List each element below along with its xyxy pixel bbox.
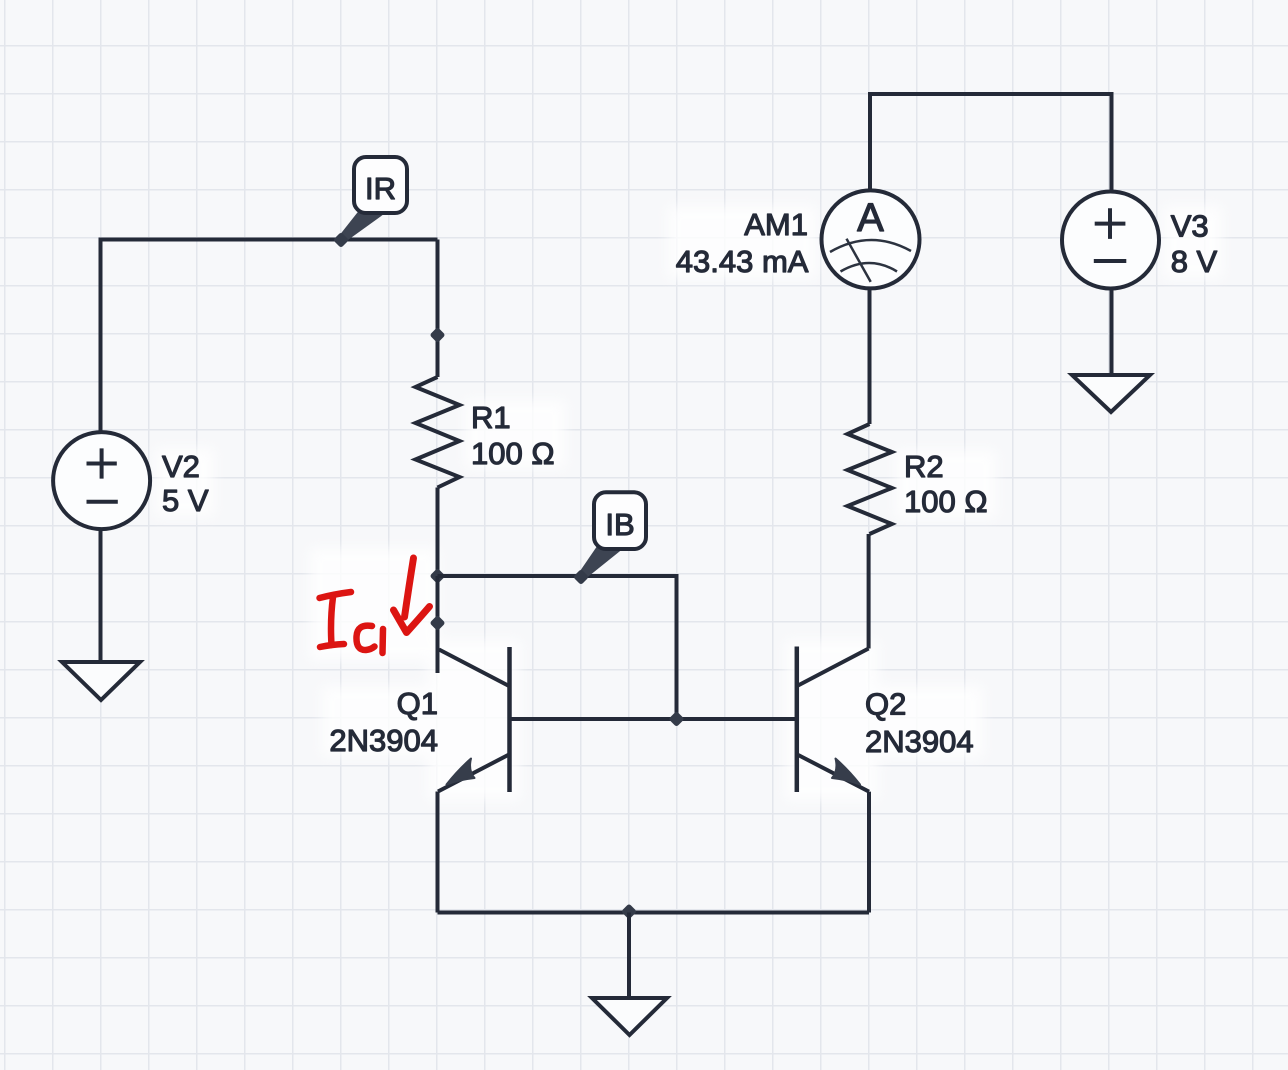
wire IB horizontal + vertical xyxy=(438,576,677,719)
wire Q2 collector vertical xyxy=(867,534,871,649)
svg-text:2N3904: 2N3904 xyxy=(865,724,974,759)
wire V3 to ground xyxy=(1110,289,1114,376)
ground (V2) xyxy=(62,662,140,700)
svg-text:IR: IR xyxy=(365,171,396,206)
wire R1 to node xyxy=(436,488,440,577)
ammeter AM1 xyxy=(822,190,920,288)
resistor R2 xyxy=(848,424,892,534)
transistor Q2 xyxy=(797,647,869,793)
soft white halos behind labels/components xyxy=(156,206,1222,800)
wire AM1 top xyxy=(868,94,872,190)
label IB flag xyxy=(578,492,646,580)
svg-text:A: A xyxy=(857,196,884,240)
wire left vertical to V2 xyxy=(99,238,103,434)
node dot base rail xyxy=(668,711,684,727)
wire down to R1 xyxy=(436,240,440,378)
wire top rail xyxy=(868,92,1112,96)
svg-text:AM1: AM1 xyxy=(744,207,808,242)
source V3 xyxy=(1062,192,1159,289)
node dot above R1 xyxy=(429,327,445,343)
transistor Q1 xyxy=(438,647,510,792)
node dot IR tap xyxy=(333,232,349,248)
wire R2 to AM1 xyxy=(868,289,872,425)
svg-text:V3: V3 xyxy=(1171,208,1209,243)
wire Q2 emitter vertical xyxy=(867,792,871,913)
svg-text:43.43 mA: 43.43 mA xyxy=(676,244,809,279)
wire V2 to ground xyxy=(99,529,103,662)
svg-text:8 V: 8 V xyxy=(1171,244,1218,279)
resistor R1 xyxy=(416,377,460,488)
wire V3 top xyxy=(1110,92,1114,192)
svg-text:Q1: Q1 xyxy=(397,686,438,721)
node dot collector xyxy=(429,615,445,631)
wire base rail xyxy=(510,717,797,721)
svg-text:R2: R2 xyxy=(904,449,944,484)
svg-text:2N3904: 2N3904 xyxy=(329,723,438,758)
node dot IB tap xyxy=(573,569,589,585)
svg-text:100 Ω: 100 Ω xyxy=(904,484,988,519)
ground (V3) xyxy=(1072,375,1150,412)
svg-text:R1: R1 xyxy=(471,400,511,435)
node dot bottom xyxy=(621,903,637,919)
ground (bottom) xyxy=(592,998,667,1035)
red arrow xyxy=(394,558,430,633)
svg-text:IB: IB xyxy=(605,507,634,542)
label IR flag xyxy=(339,157,408,243)
source V2 xyxy=(53,432,150,529)
node dot (IB branch) xyxy=(429,568,445,584)
svg-text:Q2: Q2 xyxy=(865,687,906,722)
svg-text:V2: V2 xyxy=(162,449,200,484)
wire top-left horizontal (IR net) xyxy=(101,238,438,242)
svg-text:5 V: 5 V xyxy=(162,483,209,518)
svg-text:100 Ω: 100 Ω xyxy=(471,436,555,471)
wire ground stub xyxy=(627,913,631,999)
wire Q1 emitter vertical xyxy=(436,792,440,913)
red annotation I_C1 xyxy=(320,592,384,653)
wire Q1 collector vertical xyxy=(436,576,440,673)
wire bottom rail xyxy=(438,911,870,915)
